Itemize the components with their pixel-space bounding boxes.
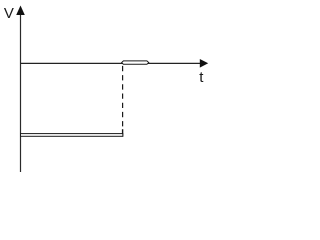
svg-text:V: V bbox=[4, 5, 14, 22]
V axis (vertical) bbox=[20, 12, 22, 172]
svg-text:t: t bbox=[199, 69, 204, 86]
V axis arrowhead bbox=[16, 6, 25, 16]
dashed transition line bbox=[122, 66, 124, 129]
t axis (horizontal) bbox=[21, 62, 202, 64]
solid stub at bottom of transition bbox=[122, 129, 124, 136]
lower level segment (outlined bar) bbox=[21, 134, 123, 137]
pulse segment on axis (outlined bar) bbox=[122, 61, 149, 64]
t axis arrowhead bbox=[200, 59, 208, 68]
